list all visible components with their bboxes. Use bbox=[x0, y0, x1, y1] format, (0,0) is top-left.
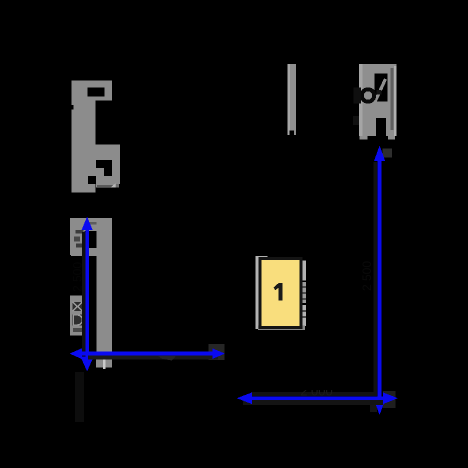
building C top-right footprint bbox=[359, 64, 397, 136]
dim arrow V2 shadow strip bbox=[373, 162, 377, 392]
building B left column lower bbox=[70, 296, 87, 336]
dim arrow V2 dark square near top head bbox=[383, 149, 393, 158]
building B bottom extension block bbox=[96, 360, 112, 368]
dim arrow H1 horizontal bbox=[70, 348, 225, 359]
unit frame around yellow box bbox=[256, 256, 307, 330]
unit 1 label bbox=[274, 283, 283, 301]
building C hole top bbox=[374, 73, 387, 101]
dim arrow V1 vertical left shaft bbox=[81, 217, 94, 372]
building B right column bbox=[97, 218, 113, 353]
building B light cross tick bbox=[103, 352, 106, 370]
building A courtyard hole 2 bbox=[88, 176, 96, 184]
building B connector bar bbox=[71, 248, 112, 256]
building A bottom strip details bbox=[97, 183, 119, 187]
dim arrow V2 vertical right shaft bbox=[374, 146, 385, 416]
building C bottom leg stubs bbox=[360, 136, 395, 140]
building C hole bottom bbox=[376, 118, 386, 136]
svg-text:2 500: 2 500 bbox=[360, 261, 374, 291]
dim arrow H2 horizontal bottom bbox=[237, 392, 398, 404]
dim arrow V1 shadow strip bbox=[82, 232, 85, 356]
dim arrow H2 shadow band below bbox=[243, 400, 383, 405]
dim arrow H1 shadow band below bbox=[88, 356, 218, 360]
building A left edge notch bbox=[72, 105, 74, 110]
dim arrow H2 junction dark blocks bbox=[370, 391, 396, 412]
dim arrow H1 shadow box behind right head bbox=[209, 344, 225, 360]
building C diagonal stripe bbox=[374, 79, 386, 105]
unit 1 yellow box bbox=[260, 259, 301, 328]
building C dark digit ring bbox=[353, 88, 382, 126]
narrow bar building top-middle bbox=[288, 64, 297, 135]
building A courtyard L-hole bbox=[96, 160, 112, 176]
dim arrow H2 label 2 000 bbox=[288, 382, 345, 399]
building A top-left footprint bbox=[72, 81, 120, 193]
dim arrow H1 under-line dark mark bbox=[158, 356, 176, 361]
building A window hole top bbox=[88, 88, 105, 97]
svg-text:2 500: 2 500 bbox=[71, 262, 85, 292]
dim arrow H2 shadow band above bbox=[251, 392, 377, 396]
building B faint shadow strip below bbox=[75, 372, 84, 422]
building B left column upper bbox=[70, 218, 85, 255]
building B lower-left: top bar bbox=[71, 218, 111, 231]
